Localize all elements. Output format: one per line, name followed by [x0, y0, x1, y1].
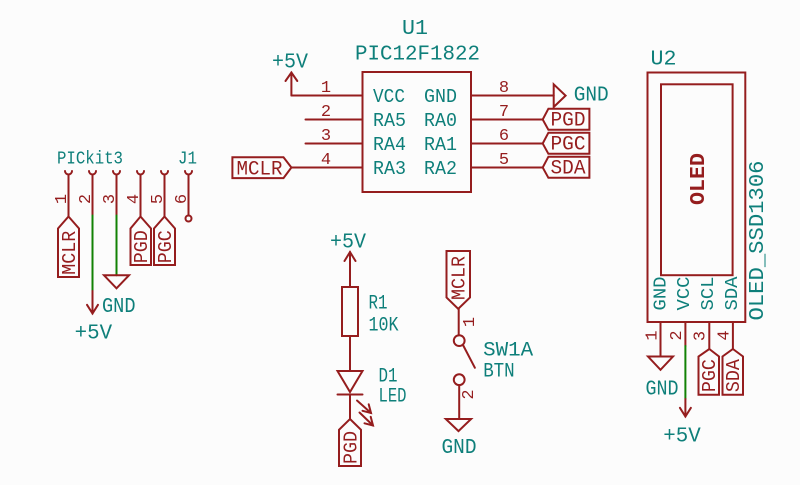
LED emission arrow 2 [360, 413, 374, 426]
wire pin2 to +5V (green) [92, 216, 94, 292]
svg-text:+5V: +5V [663, 426, 701, 449]
global label SDA (below U2 pin4, vertical) [723, 349, 744, 395]
svg-text:PGD: PGD [131, 230, 153, 263]
wire D1 to PGD tag [349, 395, 351, 420]
global label PGD (below D1, vertical) [339, 419, 361, 466]
wire MCLR to SW1A pin 1 [458, 309, 460, 335]
global label PGD (vertical, on J1 pin4) [131, 217, 152, 266]
svg-text:SDA: SDA [723, 359, 745, 393]
svg-text:GND: GND [442, 437, 477, 460]
U2 pin 1 stub [660, 322, 662, 357]
connector pin 3 arc [113, 171, 120, 175]
wire SW1A pin 2 to GND [458, 385, 460, 419]
svg-text:RA3: RA3 [373, 158, 406, 180]
wire pin4 to PGD tag [140, 175, 142, 217]
global label MCLR (above SW1A, vertical pointing down) [447, 251, 471, 309]
svg-text:10K: 10K [369, 315, 399, 338]
LED emission arrow 1 [357, 401, 371, 414]
U2 display area [661, 84, 733, 275]
svg-text:5: 5 [499, 151, 509, 170]
svg-text:RA2: RA2 [424, 158, 457, 180]
svg-text:PGD: PGD [341, 431, 363, 464]
svg-text:SCL: SCL [699, 277, 719, 311]
pin 2 stub [92, 175, 94, 216]
svg-text:7: 7 [499, 103, 509, 122]
svg-text:+5V: +5V [330, 232, 366, 255]
svg-text:SDA: SDA [723, 276, 743, 310]
svg-text:U2: U2 [651, 49, 677, 72]
U2 pin 4 stub [732, 322, 734, 349]
switch SW1A contact 1 [454, 335, 465, 346]
connector pin 4 arc [137, 171, 144, 175]
power +5V symbol (U2 pin2, pointing down) [684, 399, 686, 417]
svg-text:GND: GND [646, 379, 679, 402]
svg-text:SDA: SDA [551, 158, 586, 181]
global label PGC (vertical, on J1 pin5) [154, 217, 175, 266]
no-connect circle on pin 6 [186, 216, 192, 222]
wire MCLR to U1 pin 4 [291, 167, 362, 169]
svg-text:2: 2 [321, 103, 331, 122]
svg-text:VCC: VCC [373, 86, 405, 108]
U1 pin 8 wire to GND [471, 95, 554, 97]
svg-text:PGC: PGC [155, 230, 177, 263]
svg-text:RA4: RA4 [373, 134, 406, 156]
wire U2 pin2 to +5V (green) [684, 346, 686, 399]
svg-text:BTN: BTN [483, 361, 515, 384]
svg-text:4: 4 [321, 151, 331, 170]
global label SDA (on U1 pin5) [543, 157, 590, 178]
global label PGD (on U1 pin7) [543, 109, 590, 130]
U2 pin 2 stub [684, 322, 686, 346]
svg-text:LED: LED [379, 386, 407, 409]
pin 6 stub (unconnected) [188, 175, 190, 216]
svg-text:PIC12F1822: PIC12F1822 [355, 44, 480, 67]
switch SW1A lever [463, 345, 475, 368]
svg-text:PGC: PGC [551, 134, 586, 157]
svg-text:PGD: PGD [551, 110, 586, 133]
svg-text:PICkit3: PICkit3 [57, 150, 123, 170]
ground symbol (below SW1A) [446, 419, 471, 431]
U1 body [363, 72, 472, 192]
global label PGC (on U1 pin6) [543, 133, 590, 154]
pin 3 stub [116, 175, 118, 216]
svg-text:+5V: +5V [272, 52, 308, 75]
U1 pin 7 wire to PGD [471, 119, 543, 121]
connector pin 1 arc [65, 171, 72, 175]
connector pin 5 arc [161, 171, 168, 175]
wire pin1 to MCLR tag [68, 175, 70, 217]
wire R1 to D1 [349, 336, 351, 371]
resistor R1 [342, 287, 358, 336]
U1 pin 3 stub [306, 143, 363, 145]
svg-text:1: 1 [461, 317, 480, 327]
svg-text:1: 1 [321, 79, 331, 98]
svg-text:8: 8 [499, 79, 509, 98]
U1 pin 6 wire to PGC [471, 143, 543, 145]
svg-text:MCLR: MCLR [449, 256, 471, 300]
svg-text:OLED_SSD1306: OLED_SSD1306 [747, 161, 770, 321]
switch SW1A contact 2 [454, 374, 465, 385]
connector pin 2 arc [89, 171, 96, 175]
ground symbol (U2 pin1) [648, 357, 673, 370]
global label MCLR (on U1 pin4) [232, 157, 291, 178]
svg-text:MCLR: MCLR [237, 158, 283, 181]
U1 pin 2 stub [306, 119, 363, 121]
wire +5V to U1 pin 1 [291, 95, 362, 97]
svg-text:RA5: RA5 [373, 110, 406, 132]
svg-text:J1: J1 [178, 150, 197, 170]
U2 body [648, 73, 746, 323]
svg-text:6: 6 [499, 127, 509, 146]
diode D1 LED [338, 371, 363, 392]
svg-text:2: 2 [460, 389, 479, 399]
svg-text:GND: GND [102, 296, 136, 319]
svg-text:+5V: +5V [75, 323, 113, 346]
svg-text:GND: GND [574, 85, 609, 108]
svg-text:GND: GND [651, 277, 671, 311]
connector pin 6 arc [185, 171, 192, 175]
svg-text:RA1: RA1 [424, 134, 457, 156]
svg-text:OLED: OLED [688, 153, 711, 205]
wire pin3 to GND (green) [116, 216, 118, 276]
ground symbol (J1 pin3) [104, 275, 129, 288]
power GND symbol (U1 pin8, pointing right) [554, 84, 566, 107]
global label MCLR (vertical, on J1 pin1) [58, 217, 79, 278]
svg-text:U1: U1 [402, 18, 428, 41]
svg-text:2: 2 [668, 330, 687, 340]
svg-text:4: 4 [716, 330, 735, 340]
svg-text:3: 3 [692, 331, 711, 341]
svg-text:GND: GND [424, 86, 457, 108]
global label PGC (below U2 pin3, vertical) [699, 349, 720, 395]
svg-text:R1: R1 [369, 293, 388, 316]
svg-text:RA0: RA0 [424, 110, 457, 132]
U1 pin 5 wire to SDA [471, 167, 543, 169]
U2 pin 3 stub [708, 322, 710, 349]
svg-text:3: 3 [321, 127, 331, 146]
wire pin5 to PGC tag [164, 175, 166, 217]
svg-text:SW1A: SW1A [483, 340, 533, 363]
svg-text:VCC: VCC [675, 276, 695, 310]
power +5V symbol (J1 pin2) [92, 291, 94, 314]
svg-text:PGC: PGC [699, 359, 721, 392]
svg-text:MCLR: MCLR [59, 231, 81, 275]
